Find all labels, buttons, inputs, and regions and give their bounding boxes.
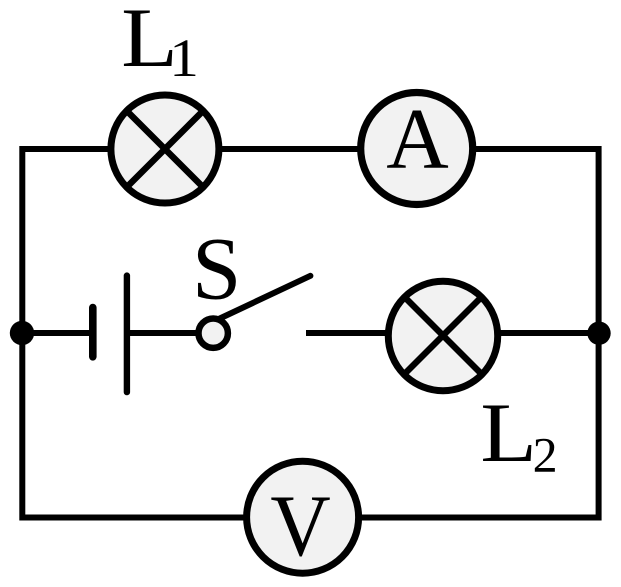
svg-text:L: L — [480, 386, 537, 480]
svg-text:A: A — [386, 91, 448, 187]
svg-text:V: V — [270, 477, 330, 574]
svg-text:1: 1 — [169, 29, 199, 89]
svg-text:S: S — [192, 220, 241, 318]
svg-text:2: 2 — [533, 426, 558, 482]
